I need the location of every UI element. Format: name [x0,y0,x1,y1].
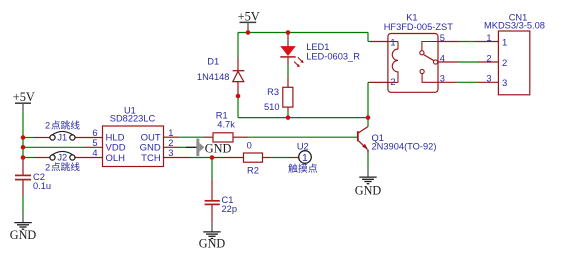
svg-text:3: 3 [440,74,445,84]
svg-text:D1: D1 [207,57,219,67]
svg-text:R3: R3 [267,87,279,97]
svg-text:5: 5 [440,33,445,43]
svg-text:SD8223LC: SD8223LC [110,114,156,124]
svg-text:4.7k: 4.7k [217,119,235,129]
svg-text:2: 2 [502,58,507,69]
svg-text:510: 510 [264,102,280,112]
svg-text:3: 3 [502,78,507,89]
svg-text:4: 4 [92,148,97,158]
svg-text:GND: GND [199,237,226,251]
svg-text:MKDS3/3-5.08: MKDS3/3-5.08 [484,21,545,31]
svg-text:R2: R2 [247,166,259,176]
svg-text:OLH: OLH [106,153,126,164]
svg-text:2: 2 [390,77,395,87]
svg-text:6: 6 [92,128,97,138]
svg-text:4: 4 [440,53,445,63]
svg-text:1: 1 [168,128,173,138]
svg-text:1: 1 [302,152,308,164]
svg-text:J1: J1 [57,132,67,142]
svg-text:2: 2 [45,121,50,131]
svg-text:+5V: +5V [238,10,260,24]
svg-text:2: 2 [486,53,491,63]
svg-text:5: 5 [92,138,97,148]
svg-text:0: 0 [247,140,252,150]
svg-text:GND: GND [205,141,232,155]
svg-text:GND: GND [355,184,382,198]
svg-text:1: 1 [502,37,507,48]
svg-text:+5V: +5V [13,90,35,104]
svg-text:TCH: TCH [141,153,161,164]
svg-text:GND: GND [10,228,37,242]
svg-text:2: 2 [168,138,173,148]
svg-text:22p: 22p [222,204,238,214]
svg-text:1: 1 [486,33,491,43]
svg-text:3: 3 [486,74,491,84]
svg-text:J2: J2 [57,152,67,162]
svg-text:2N3904(TO-92): 2N3904(TO-92) [372,141,437,151]
svg-text:1: 1 [390,38,395,48]
svg-text:U2: U2 [297,141,309,151]
svg-text:LED1: LED1 [306,42,329,52]
svg-text:K1: K1 [406,12,417,22]
svg-text:0.1u: 0.1u [33,181,51,191]
svg-text:3: 3 [168,148,173,158]
svg-text:1N4148: 1N4148 [197,72,230,82]
svg-text:HF3FD-005-ZST: HF3FD-005-ZST [384,22,454,32]
svg-text:2: 2 [45,162,50,172]
svg-text:LED-0603_R: LED-0603_R [306,51,360,61]
